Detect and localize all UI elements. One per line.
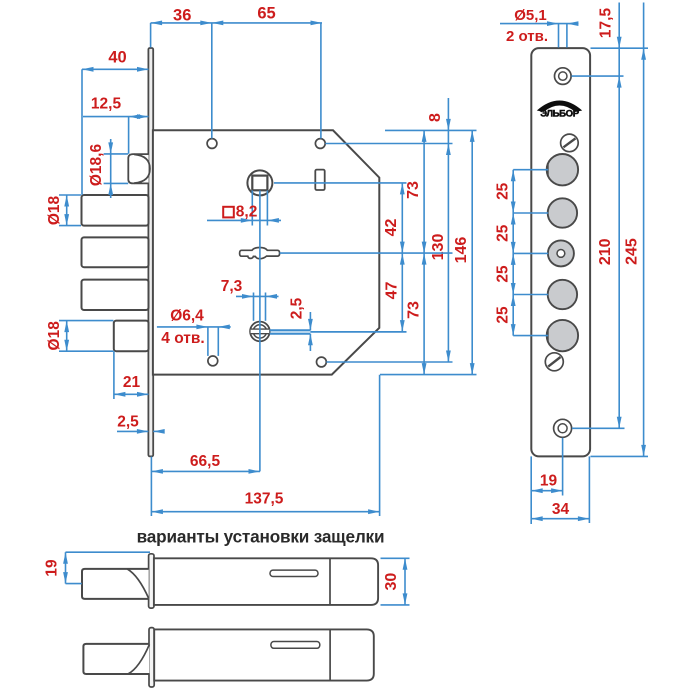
square spindle hole 8.2	[252, 176, 267, 191]
lock body outline	[153, 130, 379, 374]
ext screw top right	[572, 75, 624, 77]
svg-text:8: 8	[427, 113, 444, 122]
svg-text:8,2: 8,2	[236, 204, 258, 221]
faceplate plate (side view)	[531, 48, 590, 456]
dim 7.3 ext lines	[254, 293, 266, 321]
label square 8,2	[223, 204, 257, 221]
ext line body bottom right	[380, 374, 477, 376]
label 34	[552, 501, 570, 518]
label 17,5	[597, 8, 614, 39]
ext line bottom-right hole	[326, 361, 452, 363]
mounting hole top-right	[315, 139, 325, 149]
label 245	[624, 238, 641, 265]
dim 19 latch1	[63, 552, 150, 583]
bolt hole 1	[547, 154, 578, 185]
label 73 top	[405, 181, 422, 199]
dim 19 line right view	[531, 438, 562, 524]
ext line 12.5	[128, 117, 130, 154]
svg-text:Ø18: Ø18	[46, 321, 63, 351]
svg-text:47: 47	[383, 282, 400, 300]
deadbolt 2	[82, 237, 149, 267]
label 8	[427, 113, 444, 122]
svg-text:146: 146	[453, 237, 470, 264]
latch2 faceplate bar	[149, 628, 154, 687]
bolt hole 5	[547, 320, 578, 351]
ext line cylinder level	[270, 330, 407, 333]
label 146	[453, 237, 470, 264]
dim 6.4 ext lines	[208, 327, 218, 356]
dim 73/73 line	[422, 130, 427, 374]
dim 36/65 line top	[151, 21, 322, 26]
svg-text:130: 130	[430, 234, 447, 261]
label 2 otv	[506, 28, 548, 45]
label 42	[383, 219, 400, 237]
svg-text:25: 25	[494, 265, 511, 283]
latch1 faceplate bar	[149, 554, 154, 608]
latch1 divider	[329, 558, 331, 605]
ext line left edge top	[150, 23, 152, 48]
bolt hole 3 (with pin)	[548, 240, 574, 266]
dim 2.5 faceplate	[117, 429, 165, 434]
spindle hub circle	[247, 170, 272, 195]
svg-text:17,5: 17,5	[597, 8, 614, 39]
ext line body top right	[385, 129, 477, 131]
mounting hole top-left	[207, 139, 217, 149]
label 4 otv	[161, 330, 204, 347]
ext line hole top-left	[211, 23, 213, 139]
label 130	[430, 234, 447, 261]
latch1 slot	[270, 570, 318, 576]
mounting hole bottom-left	[208, 356, 218, 366]
slot near top	[315, 170, 324, 190]
deadbolt 4 (lower short)	[114, 321, 149, 352]
ext line spindle right	[274, 182, 407, 184]
dim 5.1 line	[500, 21, 579, 47]
slotted screw lower	[545, 353, 563, 371]
label 7,3	[221, 278, 243, 295]
svg-text:варианты установки защелки: варианты установки защелки	[137, 527, 385, 547]
heading latch variants	[137, 527, 385, 547]
ext line body right bottom	[379, 375, 381, 516]
lock faceplate (front view, side bar)	[148, 48, 153, 456]
label diameter 5,1	[514, 7, 547, 24]
label 66,5	[190, 453, 221, 470]
label 47	[383, 282, 400, 300]
label 19 right	[540, 473, 558, 490]
svg-text:Ø18: Ø18	[46, 195, 63, 225]
svg-text:ЭЛЬБОР: ЭЛЬБОР	[540, 109, 579, 120]
screw hole top	[555, 68, 572, 85]
ext plate bottom right	[591, 455, 649, 457]
square 8.2 ext lines	[252, 190, 267, 225]
svg-text:137,5: 137,5	[245, 491, 284, 508]
latch2 slot	[271, 642, 320, 649]
svg-text:36: 36	[173, 7, 191, 25]
label 19 latch	[44, 559, 61, 577]
center line horizontal	[280, 252, 453, 254]
ext line top hole right	[325, 143, 452, 145]
label 40	[108, 49, 126, 67]
label 25 a	[494, 182, 511, 200]
dim 18 bolt1	[59, 195, 81, 226]
dim 18.6 latch	[104, 139, 129, 198]
key cylinder hole	[250, 322, 270, 342]
dim 2.5 vertical	[308, 312, 313, 351]
svg-text:34: 34	[552, 501, 570, 518]
svg-text:210: 210	[597, 238, 614, 265]
svg-text:30: 30	[383, 573, 400, 591]
svg-text:66,5: 66,5	[190, 453, 221, 470]
dim 137.5 line	[151, 509, 379, 514]
dim 66.5 line	[151, 469, 260, 474]
label 30	[383, 573, 400, 591]
label 12,5	[91, 96, 122, 113]
dim 12.5 line	[83, 114, 149, 119]
ext screw bottom right	[572, 427, 625, 429]
latch bolt (front view D-shape)	[128, 154, 150, 183]
svg-text:2,5: 2,5	[117, 414, 139, 431]
svg-text:65: 65	[257, 5, 275, 23]
dim 6.4 line	[157, 325, 231, 330]
svg-text:Ø5,1: Ø5,1	[514, 7, 547, 24]
dim 25 chain	[511, 170, 548, 336]
dim 8 line	[446, 98, 451, 362]
ext plate top right	[591, 47, 649, 49]
latch1 nose	[82, 569, 149, 599]
svg-text:7,3: 7,3	[221, 278, 243, 295]
label 2,5 left	[117, 414, 139, 431]
dim 8.2 line	[207, 218, 281, 223]
label 25 c	[494, 265, 511, 283]
svg-text:25: 25	[494, 224, 511, 242]
svg-text:12,5: 12,5	[91, 96, 122, 113]
svg-text:2 отв.: 2 отв.	[506, 28, 548, 45]
logo ELBOR	[537, 101, 582, 120]
svg-text:25: 25	[494, 182, 511, 200]
ext line 40 left	[81, 69, 83, 195]
dim 40 line	[82, 67, 149, 72]
svg-text:25: 25	[494, 306, 511, 324]
label 137,5	[245, 491, 284, 508]
label diameter 18 top	[46, 195, 63, 225]
screw hole bottom	[554, 419, 572, 437]
svg-text:19: 19	[44, 559, 61, 577]
vertical center line	[259, 191, 261, 472]
svg-text:19: 19	[540, 473, 558, 490]
label 65	[257, 5, 275, 23]
label 36	[173, 7, 191, 25]
dim 146 line	[470, 130, 475, 374]
label 21	[123, 374, 141, 391]
svg-text:73: 73	[405, 181, 422, 199]
label diameter 18 bottom	[46, 321, 63, 351]
svg-text:73: 73	[405, 301, 422, 319]
latch1 body	[154, 558, 378, 605]
deadbolt 3	[82, 280, 149, 310]
label 73 bottom	[405, 301, 422, 319]
svg-text:4 отв.: 4 отв.	[161, 330, 204, 347]
mounting hole bottom-right	[317, 357, 327, 367]
dim 245 line	[641, 3, 646, 457]
svg-text:Ø6,4: Ø6,4	[170, 308, 204, 325]
label diameter 6,4	[170, 308, 204, 325]
dim 34 line	[531, 456, 589, 523]
latch2 body	[154, 629, 374, 680]
bolt hole 4	[548, 280, 577, 309]
svg-text:40: 40	[108, 49, 126, 67]
dim 17.5/210 line	[617, 3, 622, 429]
svg-text:21: 21	[123, 374, 141, 391]
svg-text:2,5: 2,5	[289, 297, 306, 319]
slotted screw upper	[561, 134, 579, 152]
label 25 b	[494, 224, 511, 242]
dim 42/47 line	[400, 183, 405, 332]
latch2 divider	[329, 629, 331, 680]
dim 18 bolt4	[59, 321, 113, 352]
label 2,5 rotated	[289, 297, 306, 319]
dim 21 line	[114, 351, 149, 399]
dim 30 latch1	[381, 558, 410, 605]
svg-text:245: 245	[624, 238, 641, 265]
ext line hole top-right	[320, 23, 322, 139]
svg-text:Ø18,6: Ø18,6	[88, 144, 105, 187]
label 210	[597, 238, 614, 265]
bolt hole 2	[548, 198, 577, 227]
deadbolt 1	[82, 195, 149, 226]
latch2 nose	[83, 644, 149, 674]
follower lever bar	[240, 248, 280, 259]
label diameter 18,6	[88, 144, 105, 187]
svg-text:42: 42	[383, 219, 400, 237]
ext line faceplate bottom	[150, 457, 152, 516]
dim 7.3 line	[236, 294, 279, 299]
label 25 d	[494, 306, 511, 324]
